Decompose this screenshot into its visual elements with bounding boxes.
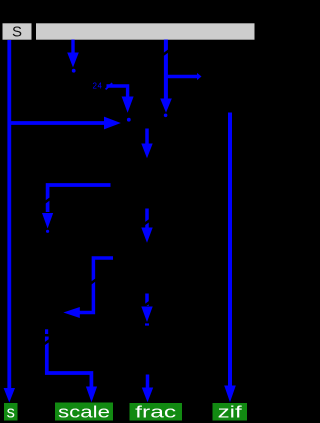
arrowhead into scale [86, 387, 97, 403]
box label s [4, 403, 18, 422]
bus slash on normalize branch [44, 198, 51, 203]
box sign-bit field S [3, 23, 32, 40]
node port dot normalize [46, 230, 49, 233]
bus slash on scale wire [43, 340, 50, 345]
wire normalize branch left [48, 185, 111, 212]
node port dot exponent [72, 69, 76, 73]
box label frac [130, 403, 183, 422]
wire sign branch to shifter [9, 121, 104, 125]
bus slash on mantissa wire [163, 50, 170, 55]
wire scale output [47, 337, 92, 389]
box label scale [55, 403, 113, 422]
wire frac stage [145, 294, 149, 307]
arrowhead left adjust [63, 307, 80, 318]
node port dash scale source [45, 329, 48, 334]
svg-text:zif: zif [218, 404, 243, 422]
arrowhead down mantissa [160, 99, 172, 113]
wire mantissa vertical [164, 40, 168, 100]
wire shift amount [107, 86, 128, 97]
box value field [36, 23, 255, 39]
arrowhead right into shifter [104, 117, 121, 130]
arrowhead frac stage [141, 307, 152, 323]
wire round stage [145, 209, 149, 228]
arrowhead down normalize [42, 213, 53, 229]
arrowhead into zif [224, 386, 236, 403]
node port dash below frac stage [145, 323, 149, 325]
arrowhead small right [197, 73, 202, 80]
wire mantissa branch right [166, 75, 197, 79]
bus slash on shift wire [106, 83, 113, 89]
svg-text:s: s [7, 404, 15, 422]
wire frac output [146, 375, 150, 389]
bus slash on round wire [144, 220, 151, 225]
wire zif (right vertical) [228, 113, 232, 387]
arrowhead down shift [122, 97, 134, 113]
node port dot shift [127, 118, 131, 122]
arrowhead into frac [142, 388, 153, 403]
bus slash on adjust wire [90, 279, 97, 284]
arrowhead round stage [141, 228, 152, 243]
svg-text:24: 24 [93, 82, 103, 91]
arrowhead shifter output [141, 144, 152, 159]
wire exponent drop from field [71, 40, 74, 54]
node port dot mantissa [164, 114, 168, 118]
arrowhead down exponent [67, 53, 79, 68]
bus slash on frac stage wire [144, 302, 151, 307]
wire adjust feedback [80, 258, 114, 313]
wire s (left vertical) [7, 40, 11, 388]
box label zif [213, 403, 248, 422]
svg-text:scale: scale [58, 404, 110, 422]
svg-text:S: S [12, 24, 22, 41]
arrowhead into s [4, 388, 15, 403]
svg-text:frac: frac [135, 404, 176, 422]
wire shifter output [145, 129, 149, 145]
